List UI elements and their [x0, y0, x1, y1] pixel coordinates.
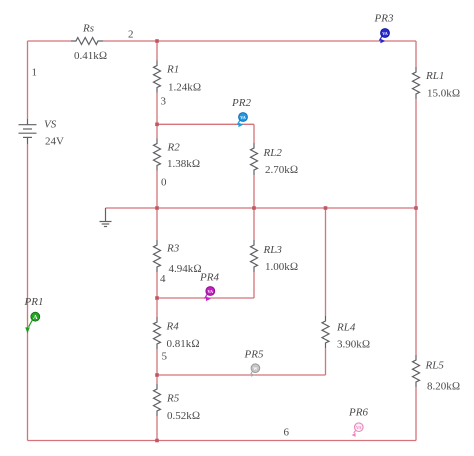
wire RL2 top lead [253, 124, 255, 143]
junction ground rail RL3 [252, 206, 256, 210]
wire middle R2 to ground rail [156, 171, 158, 209]
resistor R3 [154, 240, 161, 272]
wire node4 rail [157, 297, 254, 299]
wire left side lower [27, 144, 29, 441]
junction bottom rail middle [155, 439, 159, 443]
svg-text:0: 0 [161, 177, 167, 189]
wire middle R3 to node4 [156, 272, 158, 298]
svg-text:RL1: RL1 [425, 70, 444, 82]
svg-text:R3: R3 [166, 243, 180, 255]
wire node3 rail [157, 123, 254, 125]
wire right side below RL5 [415, 387, 417, 441]
wire node5 rail [157, 374, 326, 376]
junction ground rail middle [155, 206, 159, 210]
wire right side RL1 to ground rail [415, 99, 417, 208]
junction node2-middle [155, 39, 159, 43]
svg-text:15.0kΩ: 15.0kΩ [427, 88, 460, 100]
svg-text:VS: VS [44, 118, 57, 130]
wire middle node3 to R2 [156, 124, 158, 138]
wire top rail node 2 right of Rs [103, 40, 416, 42]
wire RL2 bottom to ground rail [253, 175, 255, 208]
svg-text:RL3: RL3 [263, 244, 283, 256]
svg-text:PR4: PR4 [199, 271, 219, 283]
wire RL4 bottom to node5 rail [325, 348, 327, 375]
svg-text:1: 1 [32, 67, 38, 79]
probe PR5 [251, 364, 260, 377]
svg-text:R1: R1 [166, 64, 179, 76]
wire RL4 branch top [325, 208, 327, 316]
svg-text:3.90kΩ: 3.90kΩ [337, 339, 370, 351]
svg-text:1.38kΩ: 1.38kΩ [167, 158, 200, 170]
svg-text:6: 6 [284, 427, 290, 439]
wire right side above RL1 [415, 41, 417, 67]
resistor RL1 [413, 67, 420, 99]
resistor RL3 [251, 240, 258, 272]
junction ground rail RL4 [324, 206, 328, 210]
svg-text:PR2: PR2 [231, 97, 251, 109]
svg-text:RL5: RL5 [425, 360, 445, 372]
svg-text:0.81kΩ: 0.81kΩ [167, 338, 200, 350]
probe PR1 [25, 312, 40, 333]
svg-text:RL4: RL4 [336, 321, 356, 333]
svg-text:PR3: PR3 [374, 13, 394, 25]
svg-text:VA: VA [382, 31, 388, 36]
svg-text:PR6: PR6 [348, 407, 368, 419]
wire top rail node 2 left of Rs [28, 40, 72, 42]
svg-text:R4: R4 [166, 321, 180, 333]
probe PR4 [205, 287, 215, 302]
wire ground rail node 0 [106, 207, 417, 209]
resistor R4 [154, 317, 161, 349]
svg-text:4.94kΩ: 4.94kΩ [169, 263, 202, 275]
resistor RL4 [322, 316, 329, 348]
wire RL3 branch top [253, 208, 255, 240]
wire RL3 bottom to node4 rail [253, 272, 255, 298]
svg-text:5: 5 [162, 351, 168, 363]
resistor RL2 [251, 143, 258, 175]
ground symbol [100, 208, 112, 227]
wire left side upper (node 1) [27, 41, 29, 119]
svg-text:VA: VA [208, 289, 214, 294]
svg-text:1.00kΩ: 1.00kΩ [265, 261, 298, 273]
wire middle ground rail to R3 [156, 208, 158, 240]
svg-text:3: 3 [161, 95, 167, 107]
svg-text:R5: R5 [166, 392, 180, 404]
wire middle R1 to node3 [156, 93, 158, 125]
svg-text:Rs: Rs [82, 22, 94, 34]
probe PR3 [379, 29, 389, 44]
wire middle R5 to bottom rail [156, 416, 158, 441]
junction ground rail right [414, 206, 418, 210]
wire middle node5 to R5 [156, 375, 158, 384]
svg-text:RL2: RL2 [263, 147, 283, 159]
wire middle R4 to node5 [156, 349, 158, 375]
resistor R2 [154, 139, 161, 171]
resistor R5 [154, 384, 161, 416]
resistor R1 [154, 61, 161, 93]
junction node4 [155, 296, 159, 300]
resistor Rs [71, 38, 103, 45]
svg-text:24V: 24V [45, 135, 64, 147]
svg-text:PR5: PR5 [244, 348, 264, 360]
svg-text:2.70kΩ: 2.70kΩ [265, 164, 298, 176]
svg-text:VA: VA [240, 115, 246, 120]
resistor RL5 [413, 355, 420, 387]
svg-text:R2: R2 [167, 141, 181, 153]
voltage source VS battery [19, 119, 37, 144]
wire right side ground rail to RL5 [415, 208, 417, 355]
svg-text:0.52kΩ: 0.52kΩ [167, 410, 200, 422]
svg-text:0.41kΩ: 0.41kΩ [74, 50, 107, 62]
svg-text:1.24kΩ: 1.24kΩ [168, 81, 201, 93]
probe PR2 [237, 113, 247, 128]
wire bottom rail node 6 [28, 440, 417, 442]
svg-text:A: A [33, 315, 38, 321]
junction node3 [155, 123, 159, 127]
junction node5 [155, 373, 159, 377]
svg-text:4: 4 [160, 273, 166, 285]
wire middle node4 to R4 [156, 298, 158, 317]
svg-text:VA: VA [356, 425, 362, 430]
svg-text:PR1: PR1 [24, 296, 44, 308]
wire middle node2 to R1 [156, 41, 158, 61]
svg-text:8.20kΩ: 8.20kΩ [427, 381, 460, 393]
probe PR6 [352, 423, 364, 437]
svg-text:2: 2 [128, 29, 134, 41]
